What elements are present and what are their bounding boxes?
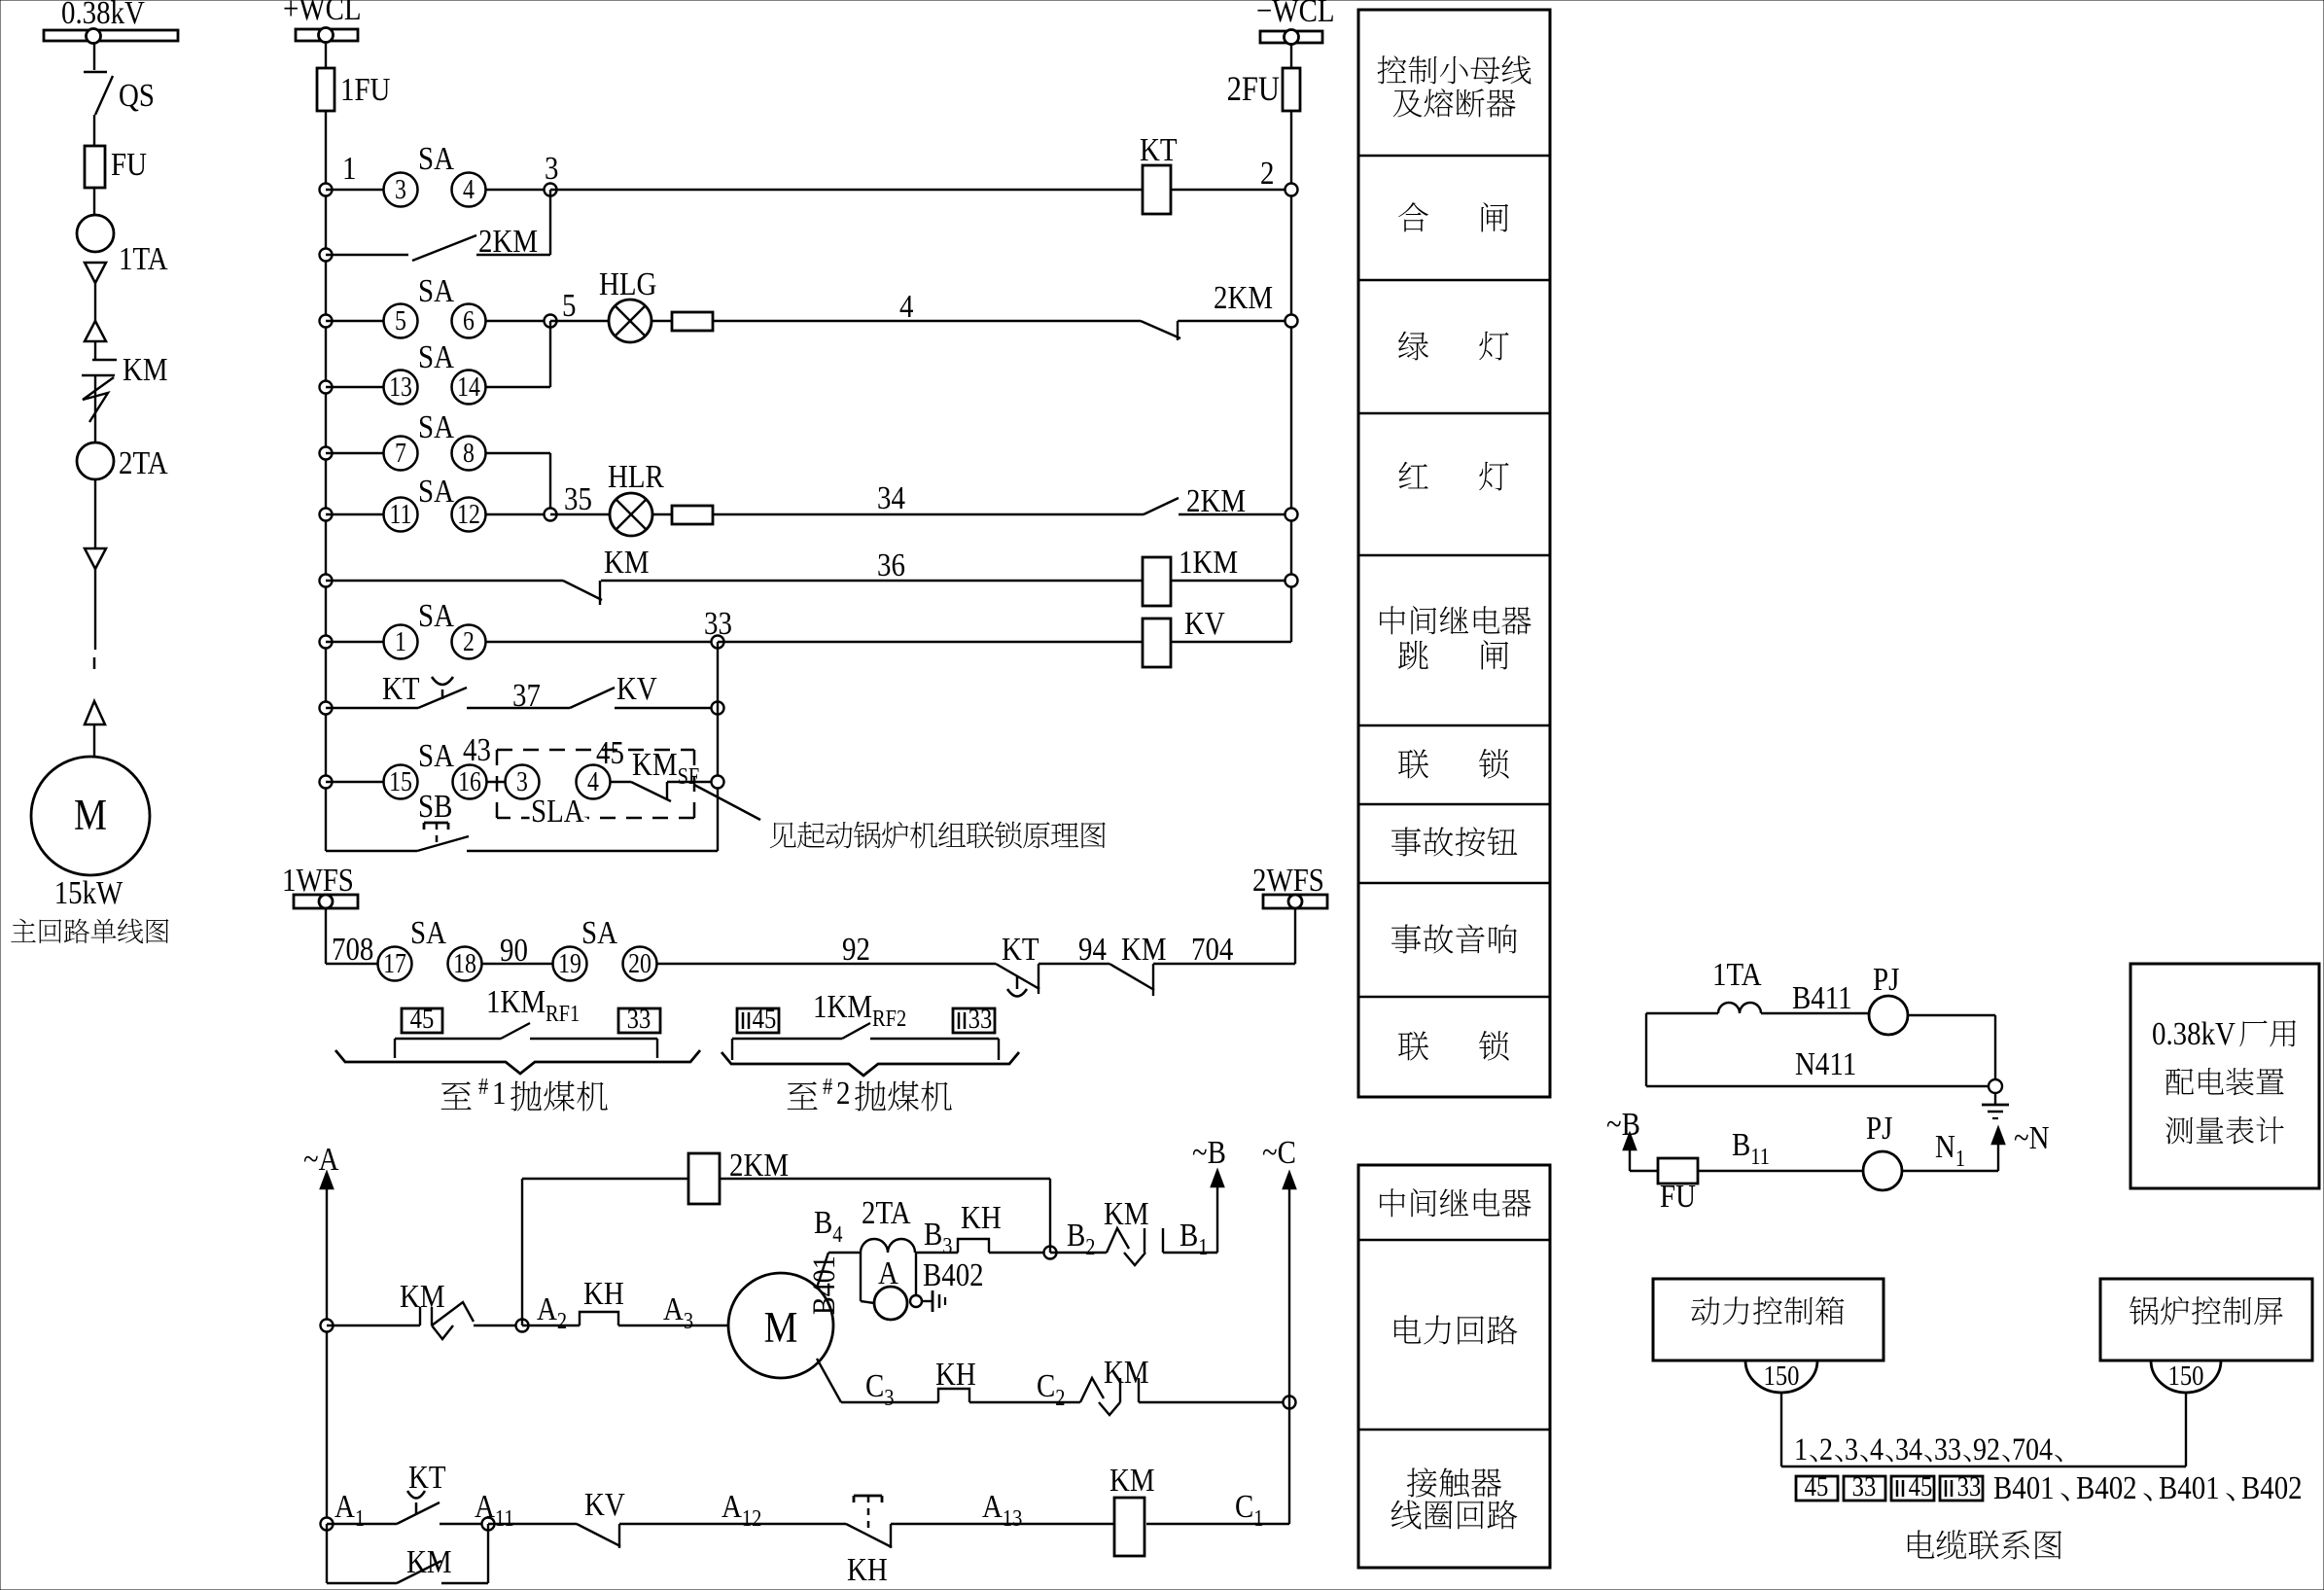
stub left RF1 bbox=[394, 1039, 396, 1058]
table row contactor coil circuit bbox=[1407, 1467, 1437, 1497]
contact KM main B-phase bbox=[1107, 1228, 1129, 1253]
svg-text:SA: SA bbox=[418, 338, 454, 375]
wire KM to 2WFS riser bbox=[1153, 963, 1295, 965]
svg-text:#: # bbox=[823, 1073, 832, 1099]
wire 2TA down bbox=[94, 479, 96, 548]
svg-text:0.38kV: 0.38kV bbox=[2152, 1015, 2236, 1052]
bus phase A vertical bbox=[326, 1184, 328, 1524]
table function column upper bbox=[1358, 10, 1550, 1097]
svg-text:KH: KH bbox=[961, 1199, 1002, 1236]
svg-text:~A: ~A bbox=[303, 1141, 339, 1178]
CT 1TA measurement bbox=[1718, 1003, 1761, 1013]
wire KT coil to node 2 bbox=[1171, 189, 1291, 191]
svg-text:12: 12 bbox=[457, 499, 480, 529]
svg-text:B401: B401 bbox=[1993, 1469, 2055, 1506]
node row9 on left bus bbox=[320, 702, 333, 715]
svg-text:34: 34 bbox=[877, 479, 905, 516]
cable run horizontal bbox=[1781, 1466, 2186, 1467]
svg-text:4: 4 bbox=[587, 766, 599, 796]
wire -WCL to 2FU bbox=[1290, 43, 1292, 68]
box text line3 bbox=[2166, 1116, 2193, 1144]
contact 1KM RF2 bbox=[732, 1038, 842, 1040]
svg-text:B402: B402 bbox=[2241, 1469, 2303, 1506]
svg-text:SA: SA bbox=[418, 408, 454, 445]
svg-text:2KM: 2KM bbox=[1214, 279, 1273, 316]
wire 18-19 bbox=[481, 963, 553, 965]
right control bus bbox=[1290, 190, 1292, 642]
busbar +WCL bbox=[296, 29, 358, 41]
node row5 on left bus bbox=[320, 447, 333, 460]
busbar 0.38kV bbox=[44, 30, 178, 41]
wire KM coil to C bus bbox=[1146, 1523, 1289, 1525]
underbrace RF2 bbox=[722, 1052, 1019, 1076]
svg-text:15: 15 bbox=[389, 766, 412, 796]
loop right side bbox=[1994, 1015, 1996, 1086]
table row interposing relay bbox=[1380, 1188, 1405, 1217]
node 2KM branch on A bbox=[516, 1320, 529, 1332]
svg-text:2: 2 bbox=[463, 626, 475, 656]
wire node B to KM contact bbox=[1050, 1252, 1107, 1254]
svg-text:36: 36 bbox=[877, 547, 905, 583]
wire resistor to 2KM NC bbox=[713, 320, 1141, 322]
table row green lamp bbox=[1398, 332, 1428, 361]
contact KT delayed NC wfs bbox=[996, 964, 1039, 989]
wire drop to ammeter bbox=[861, 1301, 874, 1303]
overload KH C-phase bbox=[938, 1389, 969, 1402]
svg-text:~B: ~B bbox=[1192, 1134, 1226, 1171]
arrow up to motor bbox=[85, 701, 105, 724]
wire CT to KH bump B bbox=[915, 1252, 958, 1254]
svg-text:B402: B402 bbox=[923, 1256, 984, 1293]
wire 20 to KT contact bbox=[656, 963, 996, 965]
svg-text:5: 5 bbox=[562, 287, 576, 324]
svg-text:2: 2 bbox=[1819, 1431, 1833, 1467]
wire to KT contact bbox=[326, 707, 418, 709]
svg-text:4: 4 bbox=[1870, 1431, 1884, 1467]
arrow down after 1TA bbox=[85, 263, 106, 283]
lamp HLG green bbox=[609, 300, 651, 342]
svg-text:~N: ~N bbox=[2014, 1119, 2050, 1156]
wire to right bus row6 bbox=[1179, 513, 1291, 515]
svg-text:SA: SA bbox=[418, 597, 454, 634]
svg-text:1: 1 bbox=[1794, 1431, 1808, 1467]
svg-text:KT: KT bbox=[1002, 931, 1039, 968]
svg-text:2: 2 bbox=[836, 1075, 850, 1112]
svg-text:FU: FU bbox=[1660, 1178, 1696, 1215]
wire C-phase bbox=[841, 1401, 938, 1403]
riser to 2WFS bbox=[1294, 908, 1296, 964]
svg-text:KM: KM bbox=[1104, 1354, 1149, 1391]
wire KH to KM coil bbox=[891, 1523, 1113, 1525]
wire resistor to 2KM NO bbox=[713, 513, 1144, 515]
table row accident button bbox=[1391, 828, 1421, 857]
SA switch contacts 7-8 bbox=[384, 437, 418, 471]
cable right drop bbox=[2185, 1393, 2187, 1466]
box power control cabinet bbox=[1653, 1279, 1884, 1360]
node row7 on left bus bbox=[320, 575, 333, 587]
wire SLA4 to KMSF bbox=[610, 781, 631, 783]
node row4 on left bus bbox=[320, 381, 333, 394]
svg-text:45: 45 bbox=[596, 734, 624, 771]
svg-text:150: 150 bbox=[2168, 1360, 2204, 1391]
node 1WFS bbox=[319, 895, 333, 908]
table row control bus and fuse bbox=[1377, 55, 1406, 84]
svg-text:KV: KV bbox=[616, 670, 657, 707]
svg-text:33: 33 bbox=[1934, 1431, 1961, 1467]
wire KH to motor bbox=[618, 1325, 728, 1326]
svg-text:KM: KM bbox=[1104, 1195, 1149, 1232]
2KM coil branch riser bbox=[521, 1179, 523, 1325]
node A11 bbox=[482, 1518, 495, 1531]
stub right RF1 bbox=[656, 1039, 658, 1058]
contact KT delayed NO bbox=[418, 688, 467, 708]
wire KH to node B bbox=[989, 1252, 1050, 1254]
terminal box 33 RF1 bbox=[618, 1008, 660, 1033]
contact 2KM NO row6 bbox=[1144, 498, 1179, 514]
note see boiler interlock diagram bbox=[770, 823, 796, 849]
wire KV to KH button bbox=[619, 1523, 846, 1525]
line break dash bbox=[93, 657, 96, 669]
table row interlock 1 bbox=[1398, 750, 1428, 779]
earth symbol measurement bbox=[1982, 1104, 2009, 1107]
wire bottom rail right bbox=[467, 850, 718, 852]
wire B11 left bbox=[1630, 1170, 1658, 1172]
wire FU to PJ lower bbox=[1698, 1170, 1863, 1172]
svg-text:704: 704 bbox=[2012, 1431, 2053, 1467]
wire KM C to bus C bbox=[1139, 1401, 1289, 1403]
svg-text:KT: KT bbox=[1140, 131, 1178, 168]
callout line to note bbox=[694, 785, 760, 820]
wire PJ lower to N arrow bbox=[1902, 1170, 1998, 1172]
meter PJ lower bbox=[1863, 1151, 1902, 1190]
svg-text:45: 45 bbox=[1805, 1470, 1829, 1502]
svg-text:19: 19 bbox=[558, 948, 581, 978]
svg-text:KH: KH bbox=[847, 1551, 888, 1588]
wire KV contact to node bbox=[615, 707, 718, 709]
table row red lamp bbox=[1399, 462, 1428, 489]
svg-text:11: 11 bbox=[390, 499, 412, 529]
svg-text:−WCL: −WCL bbox=[1256, 0, 1335, 29]
node row6 right bus bbox=[1285, 509, 1298, 521]
contact KV NO row9 bbox=[570, 688, 615, 708]
terminal boxes cable line2 bbox=[1796, 1476, 1838, 1501]
svg-text:M: M bbox=[74, 792, 107, 840]
node row10 x738 bbox=[712, 776, 724, 789]
svg-text:+WCL: +WCL bbox=[283, 0, 362, 27]
table function column lower bbox=[1358, 1165, 1550, 1568]
node N411 right bbox=[1989, 1079, 2002, 1093]
svg-text:KM: KM bbox=[400, 1278, 445, 1315]
motor M main circle bbox=[31, 757, 150, 875]
svg-text:2FU: 2FU bbox=[1227, 70, 1280, 109]
wire A to KM main contact bbox=[327, 1325, 420, 1326]
svg-text:4: 4 bbox=[899, 288, 914, 325]
wire 2KM contact to riser bbox=[476, 254, 550, 256]
svg-text:43: 43 bbox=[463, 731, 491, 768]
svg-text:45: 45 bbox=[753, 1003, 777, 1034]
wire PJ to right corner bbox=[1908, 1014, 1995, 1016]
relay coil KT bbox=[1143, 165, 1171, 214]
loop N411 bottom wire bbox=[1646, 1085, 1989, 1087]
wire KMSF to node row10 bbox=[667, 781, 718, 783]
svg-text:20: 20 bbox=[628, 948, 651, 978]
node row3 right bus bbox=[1285, 315, 1298, 328]
svg-text:KV: KV bbox=[1184, 605, 1225, 642]
svg-text:KM: KM bbox=[1121, 931, 1167, 968]
wire 1TA to KM bbox=[94, 283, 96, 321]
contact KM NC row7 bbox=[563, 581, 602, 600]
terminal box II45 RF2 bbox=[737, 1008, 779, 1033]
wire KV coil to right bus corner bbox=[1171, 641, 1291, 643]
contactor coil 2KM bbox=[688, 1153, 720, 1204]
wire KH to KM C bbox=[969, 1401, 1080, 1403]
node bottom row on A bus bbox=[321, 1518, 334, 1531]
wire 1FU down to row1 bbox=[325, 111, 327, 190]
arrow phase A bbox=[321, 1173, 333, 1188]
SLA contacts 3-4 bbox=[506, 765, 540, 799]
disconnector QS bbox=[84, 71, 107, 73]
node row8 on left bus bbox=[320, 636, 333, 649]
table row interlock 2 bbox=[1398, 1032, 1428, 1061]
svg-text:KH: KH bbox=[583, 1275, 624, 1312]
terminal box II33 RF2 bbox=[953, 1008, 995, 1033]
node row9 at x738 bbox=[712, 702, 724, 715]
SA switch contacts 5-6 bbox=[384, 304, 418, 338]
svg-text:16: 16 bbox=[458, 766, 481, 796]
table row power circuit bbox=[1394, 1315, 1421, 1343]
wire SA14 riser to node5 bbox=[485, 386, 550, 388]
cable left drop bbox=[1780, 1393, 1782, 1466]
caption zhu-hui-lu-dan-xian-tu bbox=[11, 919, 36, 942]
svg-text:B401: B401 bbox=[806, 1255, 842, 1315]
contact KT bottom delayed bbox=[397, 1502, 440, 1524]
wire to break bbox=[94, 569, 96, 650]
svg-text:~C: ~C bbox=[1262, 1134, 1296, 1171]
svg-text:SA: SA bbox=[410, 914, 446, 951]
SA switch contacts 3-4 bbox=[384, 173, 418, 207]
svg-text:KT: KT bbox=[382, 670, 420, 707]
table row accident sound bbox=[1391, 925, 1421, 954]
svg-text:A: A bbox=[878, 1254, 898, 1291]
svg-text:KH: KH bbox=[935, 1356, 976, 1393]
stub left RF2 bbox=[731, 1039, 733, 1060]
KM bypass left leg bbox=[326, 1524, 328, 1583]
node ammeter out bbox=[910, 1295, 922, 1307]
busbar 1WFS bbox=[294, 895, 358, 908]
busbar -WCL bbox=[1260, 31, 1322, 43]
arrow B measurement bbox=[1629, 1146, 1631, 1171]
svg-text:1FU: 1FU bbox=[340, 71, 391, 108]
cable gland 150 left bbox=[1745, 1360, 1817, 1393]
KM bypass right leg bbox=[487, 1524, 489, 1583]
SA contacts 17-18 bbox=[378, 947, 412, 981]
arrow up before KM bbox=[85, 321, 106, 341]
svg-text:HLG: HLG bbox=[599, 265, 656, 302]
node B junction 2KM bbox=[1044, 1247, 1057, 1259]
svg-text:3: 3 bbox=[395, 174, 406, 204]
node 33 bbox=[712, 636, 724, 649]
svg-text:SA: SA bbox=[581, 914, 617, 951]
node on -WCL bbox=[1285, 30, 1299, 45]
svg-text:33: 33 bbox=[1852, 1470, 1877, 1502]
svg-text:1TA: 1TA bbox=[119, 240, 168, 277]
svg-text:~B: ~B bbox=[1606, 1106, 1640, 1143]
loop left side bbox=[1645, 1013, 1647, 1086]
contact KM SF bbox=[631, 782, 671, 801]
svg-text:33: 33 bbox=[627, 1003, 651, 1034]
svg-text:4: 4 bbox=[463, 174, 475, 204]
svg-text:KM: KM bbox=[604, 544, 650, 581]
svg-text:0.38kV: 0.38kV bbox=[61, 0, 145, 31]
riser node33 to row9 to row10 bbox=[717, 642, 719, 851]
caption cable connection diagram bbox=[1908, 1530, 1934, 1558]
svg-text:1: 1 bbox=[492, 1075, 506, 1112]
svg-text:KM: KM bbox=[1109, 1462, 1155, 1499]
wire SA2 to node33 bbox=[485, 641, 718, 643]
svg-text:94: 94 bbox=[1078, 931, 1107, 968]
wire 2FU to node2 bbox=[1290, 111, 1292, 190]
CT secondary right drop bbox=[915, 1253, 917, 1295]
riser to node 3 bbox=[549, 190, 551, 255]
svg-text:KT: KT bbox=[408, 1459, 446, 1496]
svg-text:92: 92 bbox=[842, 931, 870, 968]
wire SA8 riser to node35 bbox=[485, 452, 550, 454]
overload KH B-phase bbox=[958, 1239, 989, 1253]
svg-text:#: # bbox=[478, 1073, 488, 1099]
motor M power circle bbox=[728, 1273, 833, 1378]
svg-text:33: 33 bbox=[968, 1003, 993, 1034]
wire +WCL to 1FU bbox=[325, 41, 327, 68]
contact 2KM NO aux bbox=[412, 235, 476, 261]
contact KV NC bottom bbox=[577, 1524, 620, 1546]
lamp resistor row6 bbox=[652, 513, 672, 515]
svg-text:N411: N411 bbox=[1795, 1045, 1856, 1082]
wire to 2KM aux contact bbox=[326, 254, 408, 256]
wire node to earth bbox=[922, 1300, 933, 1302]
svg-text:QS: QS bbox=[119, 77, 155, 114]
overload KH A-phase bbox=[580, 1312, 618, 1325]
wire to KM NC contact bbox=[326, 580, 563, 582]
svg-text:1: 1 bbox=[342, 150, 356, 187]
node row10 on left bus bbox=[320, 776, 333, 789]
node 2 on right bus bbox=[1285, 184, 1298, 196]
bus phase C vertical bbox=[1288, 1184, 1290, 1524]
svg-text:1: 1 bbox=[395, 626, 406, 656]
svg-text:FU: FU bbox=[111, 146, 147, 183]
wire A1 to KT contact bbox=[327, 1523, 397, 1525]
wire KM contact to 1KM coil bbox=[601, 580, 1143, 582]
svg-text:SLA: SLA bbox=[531, 793, 584, 830]
wire node33 to KV coil bbox=[718, 641, 1143, 643]
lamp resistor row3 bbox=[651, 320, 672, 322]
wire 1WFS down bbox=[325, 908, 327, 964]
node on +WCL bbox=[319, 28, 334, 43]
earth symbol ammeter bbox=[932, 1290, 934, 1312]
svg-text:B401: B401 bbox=[2159, 1469, 2220, 1506]
node C bus junction bbox=[1284, 1396, 1296, 1409]
node row6 on left bus bbox=[320, 509, 333, 521]
svg-text:33: 33 bbox=[1957, 1470, 1982, 1502]
SA switch contacts 1-2 bbox=[384, 625, 418, 659]
wire KT to A11 bbox=[440, 1523, 488, 1525]
svg-text:5: 5 bbox=[395, 305, 406, 336]
arrow N phase bbox=[1997, 1140, 1999, 1171]
SA contacts 19-20 bbox=[553, 947, 587, 981]
svg-text:2: 2 bbox=[1260, 155, 1274, 192]
svg-text:B402: B402 bbox=[2076, 1469, 2137, 1506]
svg-text:PJ: PJ bbox=[1873, 961, 1899, 998]
SA switch contacts 15-16 bbox=[384, 765, 418, 799]
contact 1KM RF1 bbox=[395, 1038, 501, 1040]
node row2 on left bus bbox=[320, 249, 333, 262]
node on 0.38kV bus bbox=[87, 29, 101, 44]
lamp HLR red bbox=[610, 493, 652, 536]
loop B411 top wire bbox=[1646, 1012, 1718, 1014]
svg-text:3: 3 bbox=[516, 766, 528, 796]
cable gland 150 right bbox=[2151, 1360, 2221, 1393]
wire SA6 to node5 bbox=[485, 320, 550, 322]
KM bypass bottom rail right bbox=[441, 1582, 488, 1584]
node 2WFS bbox=[1288, 895, 1302, 908]
table row interposing relay trip bbox=[1380, 606, 1405, 634]
CT 1TA circle bbox=[77, 215, 114, 252]
CT 2TA power bbox=[861, 1239, 915, 1253]
stub right RF2 bbox=[998, 1039, 1000, 1060]
wire node35 to lamp HLR bbox=[550, 513, 610, 515]
node row3 on left bus bbox=[320, 315, 333, 328]
svg-text:15kW: 15kW bbox=[54, 874, 123, 911]
fuse FU main bbox=[85, 146, 105, 188]
contact KM NO wfs bbox=[1109, 964, 1154, 990]
meter PJ upper bbox=[1869, 996, 1908, 1035]
svg-text:13: 13 bbox=[389, 371, 412, 402]
wire A11 to KV bbox=[488, 1523, 577, 1525]
svg-text:2TA: 2TA bbox=[862, 1194, 911, 1231]
svg-text:KV: KV bbox=[584, 1486, 625, 1523]
contactor coil KM bottom bbox=[1114, 1498, 1144, 1556]
node row1 on left bus (wire 1) bbox=[320, 184, 333, 196]
svg-text:1TA: 1TA bbox=[1712, 956, 1762, 993]
wire B-phase to CT bbox=[828, 1252, 861, 1254]
wire node5 to lamp HLG bbox=[550, 320, 609, 322]
wire SA16 to SLA3 bbox=[486, 781, 506, 783]
node 3 bbox=[545, 184, 557, 196]
svg-text:18: 18 bbox=[453, 948, 476, 978]
svg-text:1WFS: 1WFS bbox=[282, 862, 354, 899]
wire node to earth meas bbox=[1994, 1093, 1996, 1105]
svg-text:PJ: PJ bbox=[1866, 1110, 1892, 1147]
fuse 2FU bbox=[1283, 68, 1300, 111]
riser phase B with arrow bbox=[1216, 1183, 1218, 1253]
svg-text:KM: KM bbox=[123, 351, 168, 388]
wire 3 to KT coil bbox=[550, 189, 1143, 191]
wire motor to C-phase corner bbox=[817, 1359, 841, 1402]
left control bus bbox=[325, 190, 327, 851]
relay coil KV bbox=[1143, 618, 1171, 667]
svg-text:2WFS: 2WFS bbox=[1252, 862, 1324, 899]
dashed box SLA bbox=[497, 749, 694, 752]
wire wfs row left bbox=[326, 963, 378, 965]
drop 2KM to node B bbox=[1049, 1179, 1051, 1253]
contact KM bypass bbox=[397, 1561, 441, 1583]
contact 2KM NC row3 bbox=[1141, 321, 1180, 338]
svg-text:SA: SA bbox=[418, 272, 454, 309]
svg-text:7: 7 bbox=[395, 438, 406, 468]
wire 1KM coil to right bus bbox=[1171, 580, 1291, 582]
svg-text:35: 35 bbox=[564, 480, 592, 517]
svg-text:45: 45 bbox=[410, 1003, 435, 1034]
svg-text:SA: SA bbox=[418, 737, 454, 774]
